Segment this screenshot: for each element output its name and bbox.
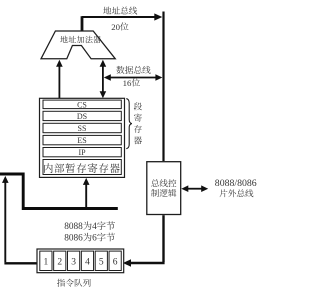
- svg-text:IP: IP: [78, 148, 86, 157]
- svg-text:DS: DS: [77, 112, 87, 121]
- svg-text:6: 6: [92, 234, 97, 244]
- svg-text:6: 6: [113, 257, 118, 267]
- svg-text:2: 2: [57, 257, 62, 267]
- svg-text:8088: 8088: [64, 222, 83, 232]
- svg-text:20: 20: [111, 22, 120, 32]
- svg-text:SS: SS: [78, 124, 87, 133]
- svg-text:CS: CS: [77, 100, 87, 109]
- svg-text:1: 1: [44, 257, 49, 267]
- svg-text:4: 4: [92, 222, 97, 232]
- svg-text:5: 5: [99, 257, 104, 267]
- svg-text:ES: ES: [77, 136, 86, 145]
- svg-text:8086: 8086: [64, 234, 83, 244]
- svg-text:16: 16: [123, 78, 132, 88]
- svg-text:3: 3: [71, 257, 76, 267]
- svg-text:8088/8086: 8088/8086: [215, 178, 257, 189]
- svg-text:4: 4: [85, 257, 90, 267]
